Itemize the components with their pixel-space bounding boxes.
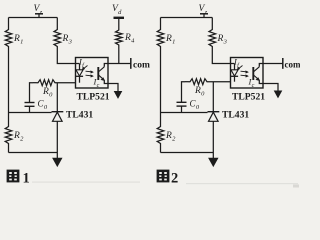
wire: LED cathode row to TL431 node figure 1 — [33, 82, 37, 84]
wire: left rail middle figure 2 — [160, 48, 162, 125]
capacitor C0 figure 2 — [177, 101, 187, 103]
wire: emitter to ground figure 2 — [263, 84, 278, 91]
wire: left rail middle figure 1 — [8, 48, 10, 125]
TL431 shunt regulator figure 2 — [208, 111, 220, 113]
LED inside optocoupler figure 1 — [79, 64, 81, 70]
resistor R0 figure 2 — [189, 79, 209, 85]
resistor R2 figure 2 — [157, 125, 164, 145]
wire: TL431 anode to ground figure 2 — [212, 121, 214, 158]
arrow If into LED figure 2 — [238, 66, 243, 70]
arrow If into LED figure 1 — [83, 66, 88, 70]
resistor R0 figure 1 — [37, 80, 57, 86]
LED inside optocoupler figure 2 — [234, 64, 236, 70]
wire: top rail figure 2 — [161, 17, 213, 19]
optocoupler U1 box TLP521 figure 1 — [76, 58, 109, 89]
ground arrow figure 2 — [209, 158, 218, 167]
wire: collector to com figure 1 — [108, 63, 131, 65]
node Vz terminal figure 1 — [35, 13, 43, 15]
TL431 shunt regulator figure 1 — [52, 111, 64, 113]
wire: C0 lower stub figure 1 — [29, 106, 31, 112]
wire: left rail lower figure 2 — [160, 145, 162, 153]
svg-text:com: com — [285, 59, 301, 69]
node com terminal tick figure 1 — [130, 58, 132, 69]
wire: top rail figure 1 — [9, 17, 58, 19]
phototransistor inside optocoupler figure 2 — [252, 67, 254, 80]
wire: reference wire to divider figure 2 — [161, 112, 208, 114]
wire: C0 lower stub figure 2 — [181, 106, 183, 112]
ground arrow emitter figure 2 — [274, 91, 282, 98]
resistor R2 figure 1 — [5, 125, 12, 145]
ground arrow figure 1 — [53, 158, 62, 167]
wire: collector to com figure 2 — [263, 63, 283, 65]
resistor R1 figure 1 — [5, 28, 12, 48]
wire: left rail upper figure 1 — [8, 18, 10, 29]
svg-text:TLP521: TLP521 — [77, 92, 110, 103]
svg-text:TLP521: TLP521 — [232, 92, 265, 103]
wire: C0 upper stub figure 1 — [30, 83, 34, 103]
wire: TL431 anode to ground figure 1 — [56, 121, 58, 158]
resistor R3 figure 2 — [209, 28, 216, 48]
svg-text:2: 2 — [171, 171, 178, 187]
wire: C0 upper stub figure 2 — [182, 82, 186, 103]
wire: LED anode pin inside figure 1 — [76, 63, 80, 65]
node Vd terminal bar figure 1 — [114, 17, 125, 19]
phototransistor inside optocoupler figure 1 — [97, 67, 99, 80]
svg-text:1: 1 — [23, 171, 30, 187]
light arrows figure 1 — [86, 70, 94, 73]
resistor R1 figure 2 — [157, 28, 164, 48]
wire: TL431 cathode lead figure 1 — [56, 83, 58, 112]
svg-text:TL431: TL431 — [66, 110, 93, 121]
ground arrow emitter figure 1 — [114, 91, 122, 98]
resistor R3 figure 1 — [54, 28, 61, 48]
node com terminal tick figure 2 — [282, 58, 284, 69]
wire: R3 top lead figure 1 — [56, 18, 58, 29]
wire: R3 to optocoupler LED anode figure 2 — [212, 48, 230, 64]
wire: left rail upper figure 2 — [160, 18, 162, 29]
wire: left rail lower figure 1 — [8, 145, 10, 153]
wire: reference wire to divider figure 1 — [9, 112, 52, 114]
wire: LED anode pin inside figure 2 — [231, 63, 235, 65]
label figure 2 caption — [157, 170, 169, 182]
node Vz terminal figure 2 — [200, 13, 208, 15]
wire: emitter to ground figure 1 — [108, 84, 118, 92]
wire: R3 top lead figure 2 — [211, 18, 213, 29]
label figure 1 caption — [7, 170, 19, 182]
resistor R4 figure 1 — [116, 29, 123, 47]
wire: TL431 cathode lead figure 2 — [212, 82, 214, 112]
wire: bottom rail figure 2 — [161, 152, 214, 154]
wire: R4 to com node figure 1 — [118, 47, 120, 64]
wire: R3 to optocoupler LED anode figure 1 — [57, 48, 75, 64]
svg-text:TL431: TL431 — [222, 110, 249, 121]
svg-text:com: com — [133, 60, 150, 70]
wire: Vd to R4 figure 1 — [118, 18, 120, 29]
capacitor C0 figure 1 — [25, 102, 35, 104]
optocoupler U2 box TLP521 figure 2 — [231, 58, 264, 89]
wire: bottom rail figure 1 — [9, 152, 58, 154]
wire: LED cathode row to TL431 node figure 2 — [185, 81, 189, 83]
scan artifact smudges (decorative) — [32, 182, 140, 183]
light arrows figure 2 — [241, 70, 249, 73]
